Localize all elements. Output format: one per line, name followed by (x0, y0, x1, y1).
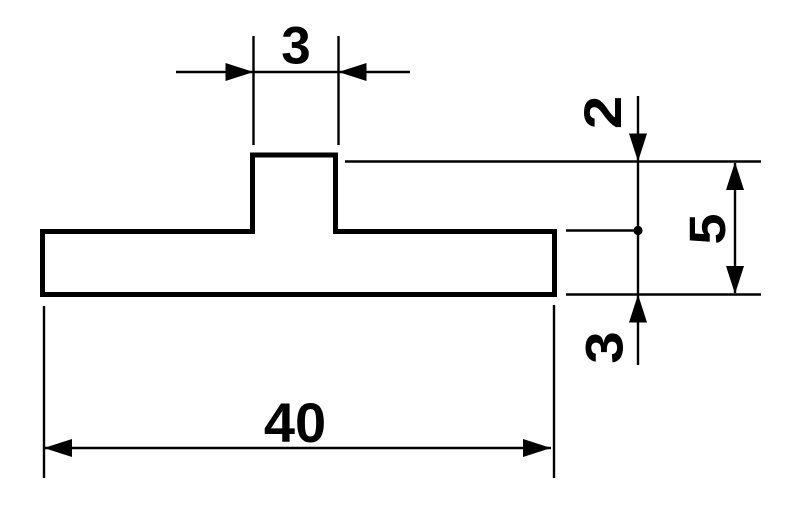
svg-text:3: 3 (281, 17, 310, 76)
svg-text:5: 5 (679, 213, 736, 244)
svg-text:2: 2 (574, 96, 633, 130)
svg-text:40: 40 (264, 391, 326, 454)
svg-text:3: 3 (575, 331, 634, 363)
